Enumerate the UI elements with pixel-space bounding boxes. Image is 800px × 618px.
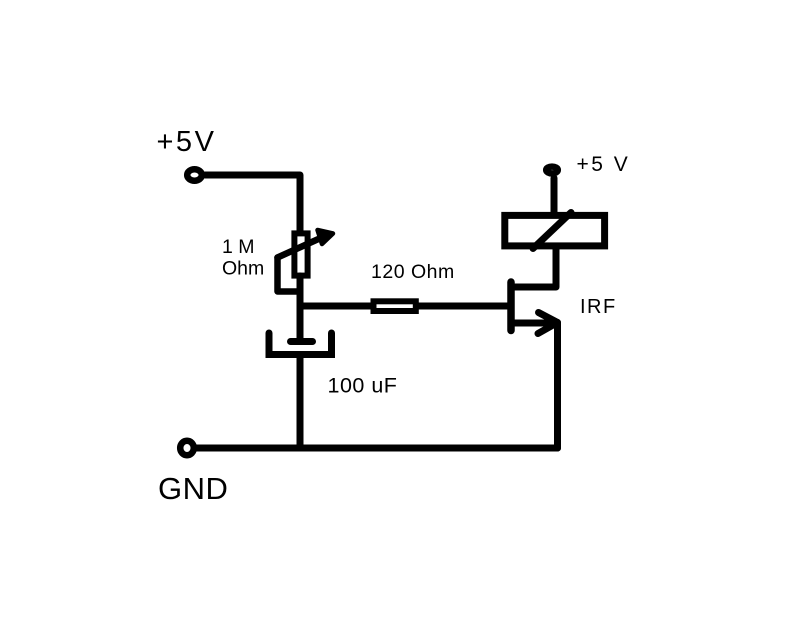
label 1 M Ohm	[222, 236, 264, 280]
label +5V	[157, 126, 217, 158]
wire relay top to +5V terminal right	[551, 178, 558, 214]
label +5 V	[577, 153, 631, 176]
potentiometer R1 1M Ohm body	[294, 233, 307, 275]
transistor Q1 drain wire to relay	[511, 246, 556, 287]
transistor source arrowhead	[538, 313, 558, 334]
potentiometer wiper loop wire	[278, 258, 301, 292]
wire pot bottom to junction	[297, 276, 304, 310]
wire resistor to MOSFET gate	[418, 303, 508, 310]
capacitor C1 bottom cup plate	[269, 333, 332, 355]
label GND	[158, 471, 228, 506]
svg-text:+5 V: +5 V	[577, 153, 631, 176]
wire capacitor bottom to ground rail	[297, 355, 304, 449]
relay K1 body	[505, 215, 605, 246]
wire from +5V terminal to potentiometer top	[205, 175, 300, 233]
wire junction down to capacitor top plate	[297, 302, 304, 338]
wire junction to resistor	[300, 303, 372, 310]
resistor 120 Ohm body	[374, 301, 416, 311]
label IRF	[580, 296, 617, 318]
terminal +5V right	[546, 167, 558, 174]
svg-text:GND: GND	[158, 471, 228, 506]
transistor Q1 source wire with arrow	[511, 320, 552, 327]
svg-text:100 uF: 100 uF	[328, 374, 398, 398]
svg-text:Ohm: Ohm	[222, 258, 264, 280]
svg-text:+5V: +5V	[157, 126, 217, 158]
svg-text:120 Ohm: 120 Ohm	[371, 261, 455, 283]
potentiometer wiper arrow	[278, 230, 334, 258]
svg-text:IRF: IRF	[580, 296, 617, 318]
transistor Q1 vertical bar	[507, 282, 515, 331]
terminal GND	[180, 441, 194, 455]
label 120 Ohm	[371, 261, 455, 283]
ground rail wire	[194, 445, 558, 452]
relay diagonal mark	[533, 213, 571, 249]
capacitor C1 top plate	[291, 338, 313, 345]
wire source down to ground rail	[554, 323, 561, 449]
svg-text:1 M: 1 M	[222, 236, 255, 258]
terminal +5V left	[187, 169, 202, 181]
label 100 uF	[328, 374, 398, 398]
